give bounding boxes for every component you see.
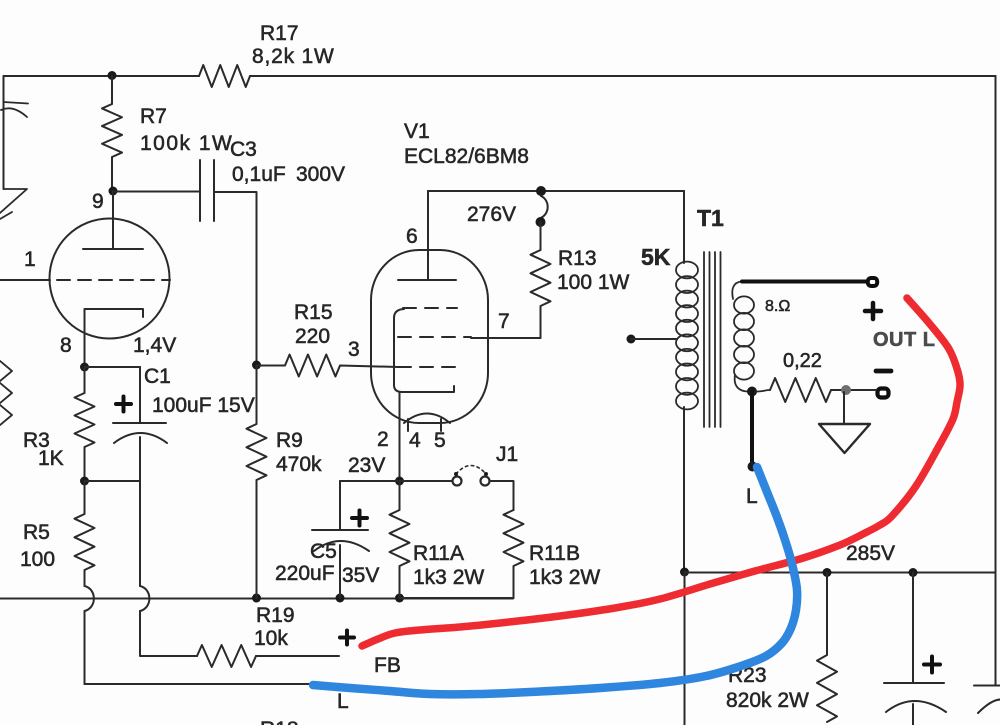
svg-text:R5: R5	[23, 521, 50, 544]
svg-text:ECL82/6BM8: ECL82/6BM8	[404, 145, 529, 168]
pentode V1 suppressor grid (dashed)	[403, 307, 457, 309]
triode V-left plate	[83, 248, 143, 250]
wire C1-branch hop over rail	[140, 586, 149, 611]
svg-text:820k 2W: 820k 2W	[726, 689, 809, 712]
svg-text:1,4V: 1,4V	[133, 334, 176, 357]
capacitor filter plates	[884, 682, 944, 684]
pentode V1 envelope	[371, 250, 488, 423]
pentode V1 heater stubs	[408, 419, 441, 431]
node L terminal	[748, 462, 758, 472]
ground symbol	[843, 392, 845, 424]
svg-text:100k 1W: 100k 1W	[140, 132, 233, 155]
capacitor C1 plus mark	[116, 397, 131, 412]
svg-text:5K: 5K	[641, 244, 671, 270]
svg-text:220uF: 220uF	[275, 562, 335, 585]
OUT minus mark	[876, 369, 891, 374]
svg-text:220: 220	[295, 325, 330, 348]
node junction pin2 / J1 rail	[395, 477, 404, 486]
wire secondary top lead	[732, 282, 742, 300]
capacitor C5 upper lead	[339, 481, 341, 530]
svg-text:5: 5	[434, 429, 446, 452]
resistor R5	[75, 481, 95, 586]
triode V-left grid (dashed)	[57, 279, 170, 281]
jumper J1 terminal left	[453, 477, 462, 486]
transformer T1 core	[704, 252, 721, 427]
svg-text:100uF 15V: 100uF 15V	[152, 394, 255, 417]
pentode V1 screen grid (dashed)	[398, 336, 471, 338]
svg-text:FB: FB	[374, 654, 401, 677]
node junction primary / B+ rail	[680, 568, 689, 577]
capacitor filter upper lead	[912, 573, 914, 684]
wire C1-branch to R19	[140, 611, 197, 656]
svg-text:300V: 300V	[296, 163, 345, 186]
jumper J1 arc end dots	[454, 472, 458, 476]
svg-text:23V: 23V	[348, 454, 385, 477]
wire C1-branch lower vertical	[139, 481, 141, 586]
svg-text:T1: T1	[697, 205, 724, 231]
svg-text:6: 6	[406, 225, 418, 248]
resistor R19	[197, 645, 256, 667]
resistor R15	[257, 355, 399, 377]
svg-text:7: 7	[498, 310, 510, 333]
capacitor C1 plates	[113, 422, 166, 424]
node junction secondary bottom	[747, 387, 757, 397]
svg-text:10k: 10k	[254, 627, 288, 650]
transformer T1 secondary winding	[734, 296, 754, 313]
svg-text:R11B: R11B	[529, 542, 580, 565]
svg-text:C1: C1	[144, 365, 171, 388]
svg-text:L: L	[746, 485, 758, 508]
node junction ground tap	[841, 385, 851, 395]
node junction rail / R23	[823, 568, 832, 577]
partial resistor left edge	[0, 361, 12, 425]
wire J1 to R11B	[490, 481, 514, 510]
capacitor C5 plus mark	[352, 511, 367, 526]
capacitor edge plates	[974, 685, 1000, 687]
resistor R13	[531, 222, 551, 338]
wire R11B bottom link	[400, 597, 514, 599]
pentode V1 heater dome	[404, 414, 450, 424]
transformer T1 primary winding	[676, 262, 698, 279]
svg-text:1k3 2W: 1k3 2W	[529, 566, 600, 589]
triode V-left envelope	[50, 219, 170, 339]
svg-text:470k: 470k	[276, 453, 322, 476]
wire cathode node to C1	[85, 366, 141, 368]
terminal OUT- ring	[878, 389, 889, 398]
wire top B+ rail right segment	[250, 75, 996, 77]
svg-text:1K: 1K	[38, 447, 64, 470]
svg-text:OUT L: OUT L	[873, 329, 936, 351]
wire top B+ rail left segment	[4, 75, 200, 77]
wire primary top lead	[683, 191, 685, 263]
wire OUT+ heavy	[742, 280, 866, 284]
wire measurement kink	[541, 196, 548, 218]
svg-text:285V: 285V	[846, 542, 895, 565]
svg-text:R9: R9	[276, 429, 303, 452]
resistor R11A	[390, 481, 410, 598]
OUT plus mark	[865, 303, 881, 319]
FB plus mark	[340, 631, 354, 645]
jumper J1 terminal right	[481, 477, 490, 486]
wire secondary bottom lead	[735, 375, 748, 392]
pentode V1 control grid (dashed)	[398, 366, 457, 368]
pentode V1 cathode	[394, 309, 454, 392]
svg-text:8,2k 1W: 8,2k 1W	[252, 45, 335, 68]
resistor R7	[102, 76, 122, 191]
wire secondary to 0.22	[757, 390, 770, 392]
wire primary tap	[631, 338, 677, 340]
svg-text:V1: V1	[404, 120, 430, 143]
svg-text:R13: R13	[558, 247, 597, 270]
capacitor C5 plates	[312, 529, 368, 531]
svg-text:3: 3	[348, 338, 360, 361]
node junction primary tap	[627, 335, 636, 344]
svg-text:L: L	[337, 690, 349, 713]
node junction C3 / R15 / R9	[252, 361, 261, 370]
node junction rail / R11A	[395, 594, 404, 603]
svg-text:35V: 35V	[342, 564, 379, 587]
wire 0.22 to OUT-	[831, 389, 876, 391]
capacitor filter lower lead	[912, 704, 914, 725]
jumper J1 arc	[456, 466, 486, 475]
svg-text:100 1W: 100 1W	[557, 271, 630, 294]
node junction cathode / R3 / C1	[80, 363, 89, 372]
svg-text:9: 9	[92, 190, 104, 213]
svg-text:1: 1	[24, 248, 36, 271]
wire C5 lower lead	[339, 545, 341, 598]
capacitor filter plus mark	[924, 657, 940, 673]
svg-text:R15: R15	[294, 301, 333, 324]
svg-text:8: 8	[60, 334, 72, 357]
resistor R17	[199, 65, 250, 87]
wire mid feedback rail	[0, 598, 513, 600]
wire R5 down to bottom rail	[84, 611, 86, 684]
wire C1 lower lead	[139, 437, 141, 481]
resistor R9	[247, 365, 267, 598]
capacitor edge lead	[995, 572, 997, 685]
svg-text:C3: C3	[230, 138, 257, 161]
wire R5 hop over rail	[85, 586, 94, 611]
wire primary bottom lead	[683, 407, 685, 572]
wire pin 6 plate lead	[427, 191, 429, 280]
node junction R7 / C3 / grid9	[109, 187, 118, 196]
wire L heavy vertical	[750, 392, 754, 467]
wire plate lead pin 9	[112, 191, 114, 249]
wire R13 to screen grid pin 7	[471, 337, 541, 339]
wire bottom feedback rail	[85, 683, 314, 685]
svg-text:8.Ω: 8.Ω	[765, 298, 790, 315]
svg-text:1k3 2W: 1k3 2W	[413, 566, 484, 589]
node junction top rail / R7	[108, 71, 117, 80]
capacitor C1 positive lead	[139, 367, 141, 423]
svg-text:R7: R7	[140, 105, 167, 128]
svg-text:0,22: 0,22	[783, 350, 822, 372]
node junction kink lower	[536, 217, 546, 227]
svg-text:0,1uF: 0,1uF	[232, 163, 286, 186]
resistor 0.22	[770, 378, 831, 402]
pentode V1 plate	[398, 279, 456, 281]
wire R3 node to C1 bottom	[85, 480, 141, 482]
svg-text:4: 4	[409, 429, 421, 452]
svg-text:R11A: R11A	[413, 542, 464, 565]
wire junction to C3	[113, 191, 200, 193]
node junction rail / R9	[252, 594, 261, 603]
node junction rail / C5	[336, 594, 345, 603]
node junction rail / cap	[909, 568, 918, 577]
svg-text:276V: 276V	[467, 203, 516, 226]
svg-text:J1: J1	[496, 443, 518, 466]
wire J1 rail left	[340, 480, 452, 482]
terminal OUT+ ring	[868, 278, 877, 286]
svg-text:R19: R19	[256, 604, 295, 627]
wire C3 to R15 node	[214, 192, 257, 365]
triode V-left cathode	[85, 309, 144, 367]
partial triangle left edge	[0, 189, 27, 213]
wire right edge vertical	[995, 76, 997, 572]
svg-text:100: 100	[20, 548, 55, 571]
blue marker annotation	[313, 467, 797, 694]
svg-text:C5: C5	[310, 540, 337, 563]
capacitor C3	[200, 160, 214, 221]
resistor R11B	[504, 510, 524, 598]
svg-text:R18: R18	[260, 718, 299, 725]
svg-text:2: 2	[377, 428, 389, 451]
wire primary branch down	[684, 572, 686, 725]
node junction 276V measure point	[536, 186, 546, 196]
partial capacitor left edge	[3, 76, 5, 189]
wire plate to transformer	[428, 190, 684, 192]
resistor R3	[75, 367, 95, 481]
wire B+ rail 285V	[685, 572, 996, 574]
wire pin 2 cathode lead	[399, 392, 401, 481]
wire R19 to FB point	[256, 655, 339, 657]
resistor R23	[817, 573, 837, 723]
svg-text:R17: R17	[260, 22, 299, 45]
red marker annotation	[362, 298, 960, 646]
node junction R3 / C1 / R5	[80, 477, 89, 486]
wire pin 1 grid lead	[0, 279, 50, 281]
